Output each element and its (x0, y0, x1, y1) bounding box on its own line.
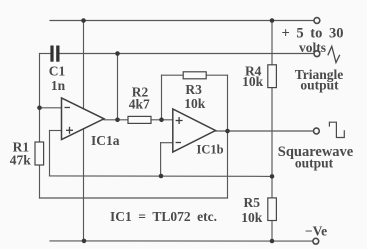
wire R3 feedback left vertical (161, 75, 163, 120)
resistor R1 (35, 142, 44, 165)
wire R1 lead below box (39, 165, 41, 198)
wire IC1a V+ pin from top rail (83, 21, 85, 110)
node IC1a inverting input (37, 106, 42, 111)
svg-text:C1: C1 (49, 64, 66, 79)
wire half-supply reference rail (50, 175, 273, 178)
svg-text:IC1b: IC1b (196, 143, 223, 157)
op-amp U2 IC1b (173, 109, 216, 152)
node bottom rail / IC1a V- (82, 239, 87, 244)
triangle wave icon (328, 46, 340, 62)
squarewave icon (329, 122, 344, 137)
svg-text:output: output (295, 156, 334, 171)
wire R1 bottom return line (40, 197, 228, 199)
svg-text:IC1a: IC1a (91, 133, 120, 148)
svg-text:output: output (300, 78, 339, 93)
op-amp IC1b plus input symbol (176, 117, 183, 124)
op-amp IC1a minus input symbol (65, 107, 71, 109)
terminal +V supply (314, 18, 320, 24)
resistor R3 (183, 72, 206, 79)
terminal triangle output (314, 51, 320, 57)
wire bottom negative rail (50, 240, 313, 242)
svg-text:R3: R3 (185, 82, 202, 97)
wire IC1a output row through R2 to IC1b + input (104, 119, 128, 121)
wire triangle-output row right of C1 (60, 53, 314, 55)
svg-text:10k: 10k (241, 210, 263, 225)
svg-text:volts: volts (299, 40, 326, 55)
wire R3 feedback right vertical to IC1b output (227, 75, 229, 131)
wire IC1a V- pin to bottom rail (83, 129, 85, 241)
resistor R5 (268, 198, 277, 221)
wire IC1a inverting input (40, 107, 62, 109)
svg-text:−Ve: −Ve (305, 224, 327, 239)
op-amp IC1a plus input symbol (66, 127, 73, 134)
svg-text:10k: 10k (184, 96, 206, 111)
op-amp U1 IC1a (62, 98, 105, 140)
node reference rail / R4 R5 divider (270, 174, 275, 179)
wire IC1a + input down to reference rail (49, 131, 51, 176)
wire R3 feedback top right (206, 74, 227, 76)
svg-text:IC1 = TL072 etc.: IC1 = TL072 etc. (110, 209, 217, 224)
svg-text:1n: 1n (51, 78, 66, 93)
op-amp IC1b minus input symbol (176, 142, 181, 144)
wire R4 top lead from supply rail (271, 21, 273, 65)
terminal squarewave output (314, 128, 320, 134)
wire R5 bottom lead to negative rail (271, 220, 273, 241)
wire IC1b - input down to reference rail (160, 143, 162, 176)
wire triangle-output row (40, 53, 51, 55)
terminal -Ve (313, 238, 319, 244)
node bottom rail / R5 (270, 239, 275, 244)
node IC1b + input / R2 right / R3 (159, 118, 164, 123)
wire IC1a output up to triangle row (117, 54, 119, 120)
node reference rail / IC1b - input (159, 174, 164, 179)
wire IC1b output to squarewave terminal (216, 130, 314, 132)
node top rail / R4 (270, 18, 275, 23)
wire R3 feedback top left (162, 74, 184, 76)
wire R2 right to IC1b (151, 119, 173, 121)
resistor R2 (128, 116, 151, 123)
svg-text:47k: 47k (10, 153, 32, 168)
wire R4 bottom lead to divider node (271, 88, 273, 198)
resistor R4 (268, 65, 277, 88)
node IC1a output / R2 left (115, 118, 120, 123)
node IC1b output (225, 129, 230, 134)
node top rail / IC1a V+ (81, 18, 86, 23)
svg-text:4k7: 4k7 (129, 97, 150, 112)
wire C1 left down to inverting input node (39, 54, 41, 143)
svg-text:R5: R5 (244, 195, 261, 210)
wire IC1a + input (50, 130, 62, 132)
capacitor C1 (50, 46, 59, 62)
wire IC1b - input (161, 142, 173, 144)
svg-text:10k: 10k (242, 74, 264, 89)
node triangle row / IC1a output (115, 51, 120, 56)
wire IC1b output down to R1 return (227, 131, 229, 198)
wire top positive supply rail (50, 20, 314, 22)
